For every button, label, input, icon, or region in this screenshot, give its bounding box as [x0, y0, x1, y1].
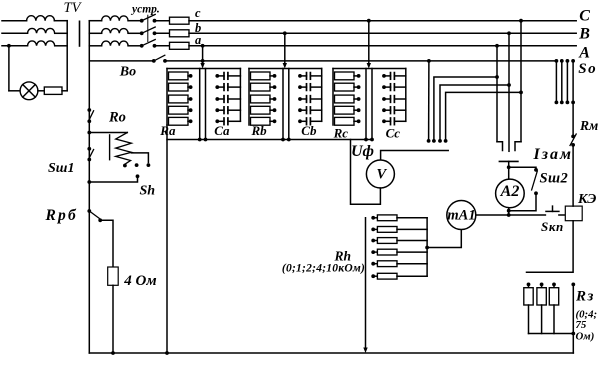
- node: bank drop on bottom bus: [165, 351, 169, 355]
- wire: Rh #5 left stub: [373, 263, 377, 265]
- wire: Cb #4 left lead: [300, 109, 307, 111]
- switch устр. pole 3: [140, 40, 157, 48]
- terminal: Ra #5: [189, 119, 193, 123]
- capacitor Cb #3: [307, 96, 311, 103]
- svg-text:c: c: [195, 6, 201, 20]
- terminal: capacitor Cb #4: [298, 108, 302, 112]
- terminal: Ra #2: [189, 85, 193, 89]
- wire: Ca #3 left lead: [217, 98, 224, 100]
- switch устр. mechanical link: [147, 15, 149, 41]
- node: 4 Ом on bottom bus: [111, 351, 115, 355]
- svg-text:Ro: Ro: [108, 109, 126, 125]
- wire: resistor to star point: [62, 90, 67, 92]
- resistor Rh #2: [377, 227, 397, 233]
- resistor Ra #4: [169, 106, 189, 114]
- wire: primary line 2 to star point: [55, 32, 67, 34]
- arrow: tap b into bank: [283, 63, 287, 69]
- wire: secondary line 1 lead: [89, 20, 101, 22]
- wire: primary phase line 1: [2, 20, 27, 22]
- capacitor Cb #5: [307, 118, 311, 125]
- svg-text:C: C: [579, 7, 590, 24]
- wire: Rb #4 right stub: [270, 109, 275, 111]
- wire: Bo line right segment: [165, 60, 556, 62]
- wire: mA1 bottom lead: [427, 230, 461, 248]
- resistor Ra #3: [169, 95, 189, 103]
- wire: primary star point vertical: [66, 21, 68, 91]
- node: tap C to stub 4: [519, 91, 523, 95]
- wire: bank bottom bus: [167, 139, 372, 141]
- terminal: Rb #4: [273, 108, 277, 112]
- wire: bottom bus: [89, 352, 573, 354]
- wire: tap b vertical: [284, 33, 286, 64]
- wire: jack stem to A2: [508, 161, 510, 179]
- svg-text:Sкп: Sкп: [541, 219, 564, 234]
- resistor Rb #5: [251, 117, 271, 125]
- resistor Rз #3: [549, 288, 558, 305]
- wire: secondary line 3 lead: [89, 45, 101, 47]
- wire: Ca #2 right lead: [228, 86, 241, 88]
- wire: Rh #3 left stub: [373, 240, 377, 242]
- svg-text:A2: A2: [500, 183, 520, 200]
- terminal: Rc #3: [357, 97, 361, 101]
- terminal: capacitor Cc #3: [382, 97, 386, 101]
- terminal: measure 1: [427, 139, 431, 143]
- capacitor Ca #4: [224, 107, 228, 114]
- capacitor Cc #4: [391, 107, 395, 114]
- node: lamp branch tap on primary line 3: [7, 44, 11, 48]
- terminal: capacitor Ca #1: [215, 74, 219, 78]
- arrow: tap a into bank: [200, 63, 204, 69]
- bank Rc left bus: [332, 69, 334, 126]
- wire: V top lead: [381, 151, 449, 161]
- transformer TV core bar: [79, 21, 81, 46]
- terminal: Rз common: [571, 283, 575, 287]
- node: tap a on phase line: [201, 44, 205, 48]
- wire: terminal drop 1 from Bo line: [428, 61, 430, 141]
- node: bank Ra middle link 2 on bus: [204, 138, 208, 142]
- wire: V bottom lead: [351, 140, 381, 205]
- bank Cc right bus: [405, 69, 407, 122]
- wire: secondary line 1 to switch: [128, 20, 142, 22]
- resistor box phase c: [170, 17, 190, 24]
- svg-text:TV: TV: [64, 0, 83, 16]
- wire: Rh right bus: [426, 218, 428, 276]
- wire: secondary line 2 lead: [89, 32, 101, 34]
- node: A2 on main wire: [507, 213, 511, 217]
- svg-text:B: B: [578, 26, 590, 43]
- switch Rм: [570, 134, 576, 147]
- svg-text:(0;1;2;4;10кОм): (0;1;2;4;10кОм): [282, 262, 365, 274]
- wire: Rb #2 right stub: [270, 86, 275, 88]
- resistor Rb #4: [251, 106, 271, 114]
- svg-text:4 Ом: 4 Ом: [123, 273, 156, 289]
- wire: Rз #2 bottom lead: [541, 305, 543, 334]
- wire: switch to box c: [155, 20, 170, 22]
- wire: Bo line left segment: [89, 60, 154, 62]
- svg-text:Ом): Ом): [576, 331, 595, 343]
- wire: Rз #3 bottom lead: [553, 305, 555, 334]
- bank middle link 2 (Ra): [205, 69, 207, 140]
- node: tap on phase B: [507, 31, 511, 35]
- wire: Cb #3 left lead: [300, 98, 307, 100]
- terminal: Rc #1: [357, 74, 361, 78]
- wire: A2 bottom lead: [508, 208, 510, 215]
- wire: Ca #5 left lead: [217, 120, 224, 122]
- terminal: Rh #4: [371, 250, 375, 254]
- resistor Ra #2: [169, 83, 189, 91]
- terminal: capacitor Cb #2: [298, 85, 302, 89]
- wire: tap c vertical: [368, 21, 370, 64]
- terminal: measure 4: [444, 139, 448, 143]
- transformer TV secondary winding 1: [102, 16, 129, 21]
- wire: Rb #1 right stub: [270, 75, 275, 77]
- resistor Rh #3: [377, 238, 397, 244]
- wire: secondary line 2 to switch: [128, 32, 142, 34]
- resistor Rc #1: [335, 72, 355, 80]
- svg-text:Во: Во: [119, 65, 136, 80]
- terminal: Rc #2: [357, 85, 361, 89]
- terminal: Rb #1: [273, 74, 277, 78]
- terminal: Ra #1: [189, 74, 193, 78]
- capacitor Ca #5: [224, 118, 228, 125]
- pushbutton Sкп: [546, 206, 559, 211]
- switch Sш1: [87, 147, 93, 162]
- svg-text:75: 75: [576, 319, 587, 331]
- svg-text:So: So: [578, 61, 597, 77]
- node: bank Rc middle link 2 on bus: [370, 138, 374, 142]
- terminal: Ro tap: [147, 163, 151, 167]
- wire: Cb #5 right lead: [310, 120, 321, 122]
- wire: lamp branch horizontal: [9, 90, 20, 92]
- wire: Rh #5 right lead: [397, 263, 427, 265]
- capacitor Cc #5: [391, 118, 395, 125]
- node: bank Rb middle link 1 on bus: [281, 138, 285, 142]
- transformer TV secondary winding 2: [102, 29, 129, 34]
- terminal: Rh #1: [371, 216, 375, 220]
- node: tap c on phase line: [367, 19, 371, 23]
- switch Bo: [152, 55, 167, 63]
- capacitor Ca #2: [224, 84, 228, 91]
- resistor Rз #1: [524, 288, 533, 305]
- arrow: tap c into bank: [367, 63, 371, 69]
- wire: Rh #1 left stub: [373, 217, 377, 219]
- node: Ro rheostat tap: [87, 131, 91, 135]
- jack Iзам left bracket: [497, 142, 503, 151]
- node: Rз bus join: [571, 332, 575, 336]
- node: A2 top / Sш2 branch: [507, 165, 511, 169]
- terminal: Rc #4: [357, 108, 361, 112]
- node: tap b on phase line: [283, 31, 287, 35]
- wire: Cc #5 right lead: [394, 120, 405, 122]
- wire: lamp to resistor: [38, 90, 44, 92]
- terminal: Rb #2: [273, 85, 277, 89]
- svg-text:Cb: Cb: [301, 123, 317, 138]
- wire: terminal drop 4: [446, 92, 521, 140]
- wire: Rз #1 bottom lead: [528, 305, 530, 334]
- terminal: measure 3: [438, 139, 442, 143]
- svg-text:mA1: mA1: [447, 208, 475, 224]
- terminal: capacitor Ca #3: [215, 97, 219, 101]
- switch on left bus (upper): [87, 108, 93, 123]
- capacitor Cb #1: [307, 73, 311, 80]
- svg-text:Rм: Rм: [579, 118, 598, 133]
- terminal: capacitor Cb #5: [298, 119, 302, 123]
- capacitor Cc #2: [391, 84, 395, 91]
- wire: bank bus drop to bottom bus: [166, 125, 168, 353]
- wire: tap B vertical (middle prong): [508, 33, 510, 151]
- wire: Rh #3 right lead: [397, 240, 427, 242]
- svg-text:Rh: Rh: [334, 248, 352, 263]
- wire: Sh to bus: [89, 176, 137, 182]
- terminal: Rc #5: [357, 119, 361, 123]
- resistor 4 Ом: [108, 267, 119, 285]
- wire: Rм to КЭ box: [572, 145, 574, 206]
- wire: mA1 right lead: [476, 214, 509, 216]
- wire: primary phase line 2: [2, 32, 28, 34]
- wire: Cb #3 right lead: [310, 98, 321, 100]
- svg-text:a: a: [195, 33, 201, 47]
- terminal: Rз #3: [552, 283, 556, 287]
- wire: Rh #1 right lead: [397, 217, 427, 219]
- wire: Sш2 lower branch: [509, 193, 536, 210]
- resistor Rh #5: [377, 261, 397, 267]
- wire: Cb #2 left lead: [300, 86, 307, 88]
- resistor Rh #4: [377, 249, 397, 255]
- wire: Cc #3 left lead: [384, 98, 391, 100]
- wire: Ca #4 right lead: [228, 109, 241, 111]
- wire: primary phase line 3: [2, 45, 28, 47]
- node: tap A to stub 2: [495, 75, 499, 79]
- resistor Rb #1: [251, 72, 271, 80]
- wire: Cb #2 right lead: [310, 86, 321, 88]
- wire: Rh #6 right lead: [397, 275, 427, 277]
- terminal: capacitor Ca #2: [215, 85, 219, 89]
- transformer TV primary winding 2: [28, 28, 55, 33]
- svg-text:A: A: [578, 45, 590, 62]
- jack Iзам socket bar: [499, 160, 518, 162]
- wire: Cc #1 right lead: [394, 75, 405, 77]
- wire: Ra #1 right stub: [188, 75, 191, 77]
- terminal: Sh upper: [135, 163, 139, 167]
- wire: Cc #1 left lead: [384, 75, 391, 77]
- wire: Rc #2 right stub: [354, 86, 359, 88]
- svg-text:Sh: Sh: [140, 184, 156, 199]
- capacitor Cc #1: [391, 73, 395, 80]
- wire: primary line 1 to star point: [54, 20, 67, 22]
- capacitor Ca #3: [224, 96, 228, 103]
- wire: main wire to Sкп: [509, 214, 546, 216]
- element КЭ: [565, 206, 582, 221]
- resistor Rh #1: [377, 215, 397, 221]
- wire: Ra #5 right stub: [188, 120, 191, 122]
- wire: terminal drop 3: [440, 85, 509, 141]
- terminal: Ra #4: [189, 108, 193, 112]
- rheostat Ro zigzag: [116, 133, 132, 165]
- resistor Ra #5: [169, 117, 189, 125]
- wire: Cc #4 right lead: [394, 109, 405, 111]
- wire: Ro lead: [89, 132, 127, 134]
- terminal: capacitor Cc #2: [382, 85, 386, 89]
- bank middle link 2 (Rb): [288, 69, 290, 140]
- wire: Rh #4 left stub: [373, 251, 377, 253]
- wire: So to Rм switch: [572, 102, 574, 136]
- resistor box phase b: [170, 30, 190, 37]
- resistor Rc #3: [335, 95, 355, 103]
- wire: Rрб to 4 Ом resistor: [100, 220, 113, 267]
- wire: Ca #1 left lead: [217, 75, 224, 77]
- wire: Cc #2 left lead: [384, 86, 391, 88]
- transformer TV primary winding 3: [28, 41, 55, 46]
- terminal: capacitor Ca #4: [215, 108, 219, 112]
- terminal: Rb #5: [273, 119, 277, 123]
- capacitor Ca #1: [224, 73, 228, 80]
- wire: Rз #3 top lead: [553, 284, 555, 287]
- wire: phase line b: [189, 32, 576, 34]
- wire: Ra #2 right stub: [188, 86, 191, 88]
- wire: Cc #3 right lead: [394, 98, 405, 100]
- bank Ca right bus: [239, 69, 241, 122]
- terminal: Ra #3: [189, 97, 193, 101]
- terminal: Rh #3: [371, 239, 375, 243]
- switch Rрб: [87, 209, 102, 222]
- wire: terminal drop 2: [434, 77, 497, 141]
- wire: primary line 3 to star point: [55, 45, 67, 47]
- terminal: capacitor Cb #3: [298, 97, 302, 101]
- arrow: Rh riser into bottom bus: [363, 348, 367, 354]
- wire: switch to box b: [155, 32, 170, 34]
- wire: Rh #6 left stub: [373, 275, 377, 277]
- resistor Rз #2: [537, 288, 546, 305]
- wire: Cc #4 left lead: [384, 109, 391, 111]
- terminal: Rh #2: [371, 228, 375, 232]
- svg-text:V: V: [376, 167, 387, 183]
- node: tap on phase C: [519, 19, 523, 23]
- lamp HL (signal lamp): [20, 82, 38, 100]
- terminal: capacitor Cc #5: [382, 119, 386, 123]
- bank Rb/Cb top frame: [249, 68, 322, 70]
- resistor Rc #2: [335, 83, 355, 91]
- svg-text:КЭ: КЭ: [577, 192, 596, 207]
- node: Sш2 lower join: [507, 209, 511, 213]
- terminal: capacitor Ca #5: [215, 119, 219, 123]
- svg-text:Rз: Rз: [575, 289, 595, 305]
- resistor Rb #3: [251, 95, 271, 103]
- rheostat Ro slider bar: [109, 135, 111, 160]
- wire: Rb #3 right stub: [270, 98, 275, 100]
- capacitor Cc #3: [391, 96, 395, 103]
- svg-text:Rb: Rb: [251, 123, 268, 138]
- wire: Rh left riser bus: [365, 218, 367, 348]
- terminal: Rb #3: [273, 97, 277, 101]
- node: Sh branch on bus: [87, 180, 91, 184]
- switch устр. pole 1: [140, 14, 157, 22]
- wire: Rh #4 right lead: [397, 251, 427, 253]
- wire: Ca #4 left lead: [217, 109, 224, 111]
- wire: Rc #1 right stub: [354, 75, 359, 77]
- bank Cb right bus: [321, 69, 323, 122]
- wire: secondary star bus (left main bus): [88, 21, 90, 353]
- capacitor Cb #2: [307, 84, 311, 91]
- node: bank Rb middle link 2 on bus: [287, 138, 291, 142]
- wire: Ro middle tap: [131, 153, 148, 163]
- transformer TV primary winding 1: [27, 16, 55, 21]
- wire: 4 Ом to bottom bus: [112, 285, 114, 353]
- terminal: Rh #6: [371, 274, 375, 278]
- wire: Ra #3 right stub: [188, 98, 191, 100]
- wire: Rh #2 left stub: [373, 228, 377, 230]
- node: Rh bus to mA1: [425, 246, 429, 250]
- wire: Rb #5 right stub: [270, 120, 275, 122]
- wire: Sш2 upper branch: [509, 167, 536, 170]
- terminal: Rз #2: [540, 283, 544, 287]
- node: bank Rc middle link 1 on bus: [364, 138, 368, 142]
- ammeter A2: [496, 179, 525, 208]
- svg-text:Uф: Uф: [351, 143, 374, 160]
- resistor (lamp series): [44, 87, 62, 94]
- wire: phase line c: [189, 20, 576, 22]
- wire: Cb #5 left lead: [300, 120, 307, 122]
- svg-text:Rрб: Rрб: [45, 207, 78, 224]
- terminal: Rз #1: [527, 283, 531, 287]
- wire: Ca #5 right lead: [228, 120, 241, 122]
- svg-text:Sш1: Sш1: [48, 161, 74, 176]
- wire: Cb #1 left lead: [300, 75, 307, 77]
- wire: Rc #5 right stub: [354, 120, 359, 122]
- wire: Rз common down: [572, 284, 574, 353]
- bank Rc/Cc top frame: [333, 68, 406, 70]
- wire: tap A vertical: [496, 46, 498, 142]
- transformer TV secondary winding 3: [102, 41, 129, 46]
- wire: Ra #4 right stub: [188, 109, 191, 111]
- wire: Cc #2 right lead: [394, 86, 405, 88]
- switch устр. pole 2: [140, 27, 157, 35]
- milliammeter mA1: [447, 201, 476, 230]
- resistor box phase a: [170, 42, 190, 49]
- terminal: Ro end: [123, 164, 127, 168]
- wire: phase line a: [189, 45, 576, 47]
- resistor Rc #4: [335, 106, 355, 114]
- wire: tap a vertical: [202, 46, 204, 64]
- terminal: measure 2: [432, 139, 436, 143]
- wire: Rc #4 right stub: [354, 109, 359, 111]
- wire: Cb #4 right lead: [310, 109, 321, 111]
- wire: Rh #2 right lead: [397, 228, 427, 230]
- svg-text:Iзам: Iзам: [533, 146, 573, 163]
- terminal block So: [555, 59, 575, 104]
- svg-text:Sш2: Sш2: [540, 171, 569, 187]
- capacitor Cb #4: [307, 107, 311, 114]
- voltmeter V (U1): [366, 160, 394, 188]
- bank middle link 1 (Rb): [282, 69, 284, 140]
- svg-text:Rc: Rc: [333, 126, 349, 141]
- wire: Rз bottom bus: [529, 333, 574, 335]
- resistor Rh #6: [377, 273, 397, 279]
- terminal: Sh lower: [136, 174, 140, 178]
- svg-text:Cc: Cc: [386, 126, 401, 141]
- wire: Rc #3 right stub: [354, 98, 359, 100]
- wire: Cb #1 right lead: [310, 75, 321, 77]
- wire: switch to box a: [155, 45, 170, 47]
- wire: lamp branch down: [8, 46, 10, 91]
- wire: Ca #1 right lead: [228, 75, 241, 77]
- terminal: capacitor Cc #4: [382, 108, 386, 112]
- wire: Ca #2 left lead: [217, 86, 224, 88]
- svg-text:Ca: Ca: [214, 123, 230, 138]
- wire: Rз #1 top lead: [528, 284, 530, 287]
- node: bank Ra middle link 1 on bus: [198, 138, 202, 142]
- wire: tap C vertical: [520, 21, 522, 142]
- wire: Ca #3 right lead: [228, 98, 241, 100]
